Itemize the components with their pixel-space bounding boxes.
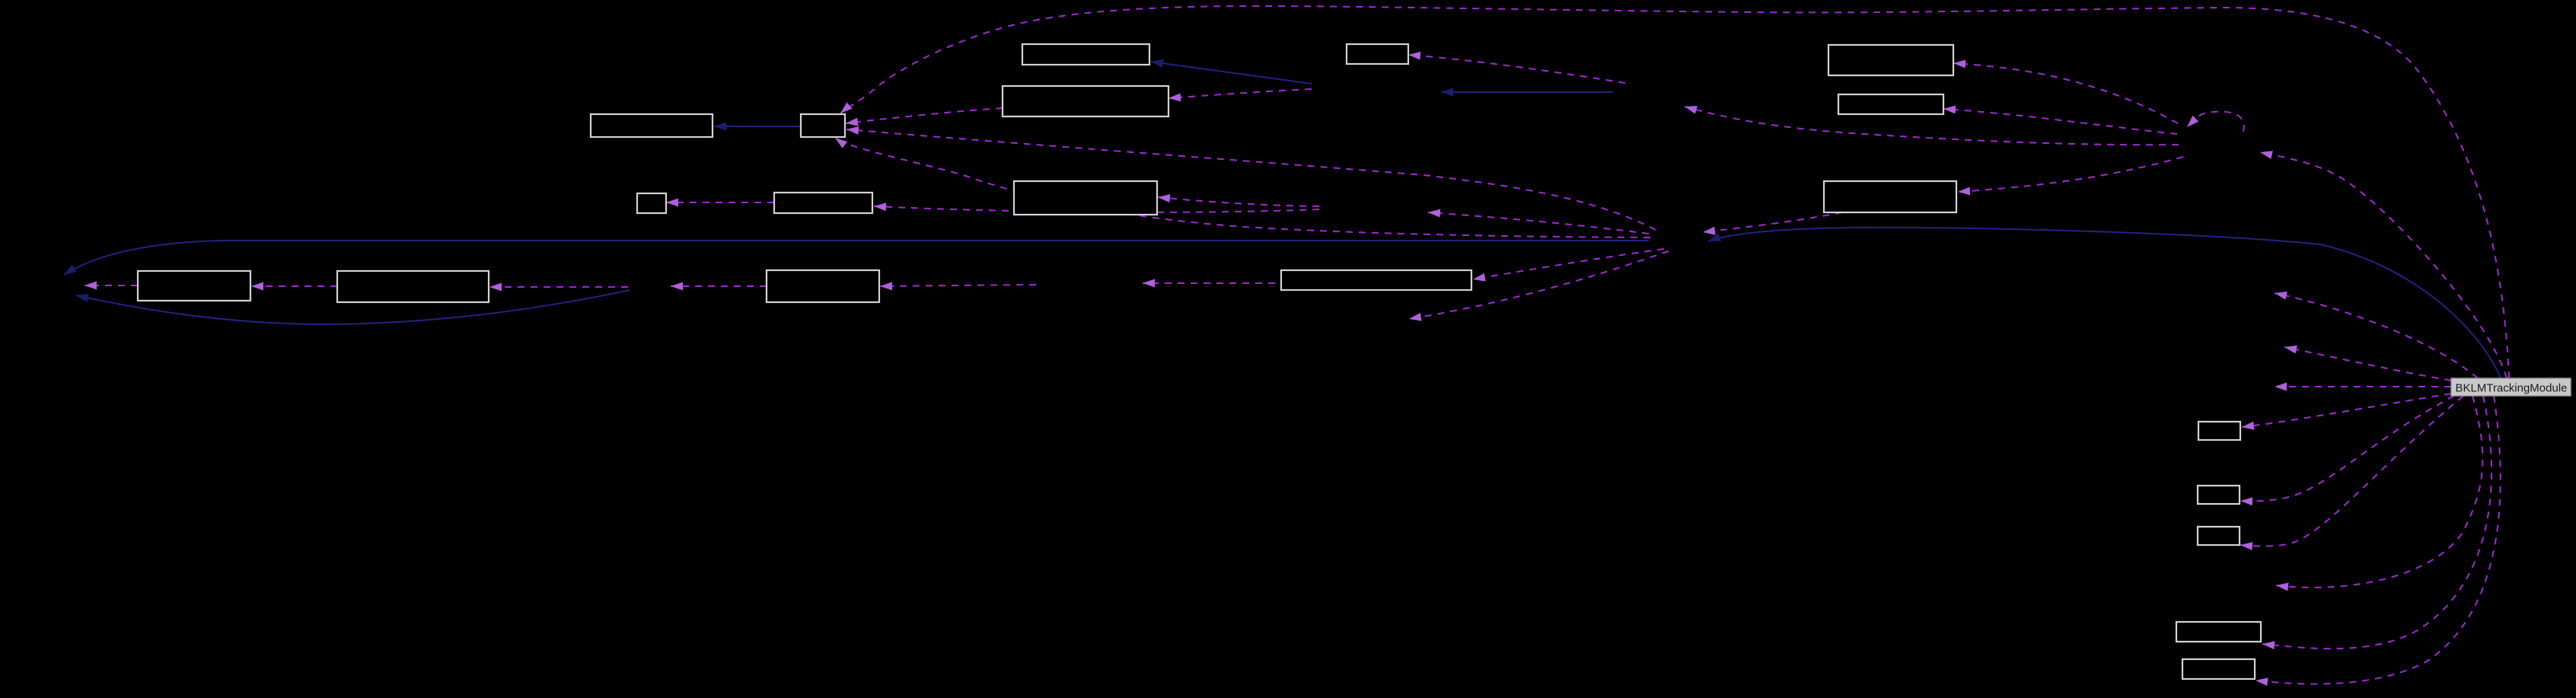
edge hub1 to F bottom [835,138,1650,237]
edge L corner to hub1 [1703,212,1842,232]
edge BKLM to sink b [2284,347,2451,381]
edge hubU to D [1168,89,1312,98]
edge BKLM to hub1 blue [1708,228,2501,378]
edge BKLM to R3 [2240,396,2463,547]
edge F to E blue [714,126,801,127]
edge Z0 to far left bottom blue [76,290,630,324]
edge hub2 to K [1953,63,2178,123]
edge O to hidden Z0 [671,285,767,287]
edge hub1 to far left blue [64,241,1649,275]
edge hub2 self loop [2187,112,2244,132]
edge hubU to A blue [1151,62,1312,84]
edge BKLM to R4 [2262,396,2492,649]
edge hidden Z3 to J [874,206,1319,212]
edge J to I [666,202,774,203]
edge BKLM top route to F [840,6,2509,378]
svg-text:BKLMTrackingModule: BKLMTrackingModule [2455,382,2567,395]
node box B [1347,44,1408,64]
node box O [767,270,879,302]
edge hubT to hubU blue [1441,91,1613,93]
node box L [1824,181,1956,212]
edge hub2 to K2 [1943,109,2177,134]
node box R3 [2198,527,2240,545]
node box I [637,193,666,213]
node box J [774,193,872,213]
edge BKLM to R2 [2240,396,2454,501]
edge hub1 to F lower [846,129,1656,230]
edge BKLM to R5 [2256,396,2501,684]
node BKLMTrackingModule [2451,378,2571,396]
edge hub1 to hidden Z3 [1428,212,1649,234]
edge hub1 to P [1473,249,1664,279]
node box K [1828,45,1953,75]
node box R4 [2176,622,2261,642]
node box N [337,271,489,302]
edge BKLM to sink a [2275,293,2478,378]
node box R2 [2198,486,2240,504]
edge hub2 to L [1958,157,2183,192]
edge N to M [251,285,337,287]
node box A [1022,44,1149,65]
node box F [801,114,845,137]
node box M [138,271,250,301]
edge D to F upper [846,108,1003,123]
node box K2 [1838,94,1943,114]
node box E [591,114,713,137]
edge BKLM to hub2 [2260,152,2507,378]
node box R1 [2198,422,2240,440]
edge hubT to B [1408,55,1625,83]
node box D [1003,86,1168,116]
edge hub1 to hidden Z2 [1409,251,1669,319]
edge hidden Z3 to H [1158,197,1319,206]
edge hidden Z0 to N [489,286,628,288]
edge BKLM to R1 [2242,394,2451,427]
edge M to left sink [84,285,138,286]
edge P to hidden Z1 [1143,282,1275,284]
edge BKLM to sink c [2275,386,2451,387]
node box H [1014,181,1157,215]
edge BKLM to sink d [2276,396,2482,588]
edge hub2 to hubT [1685,107,2179,145]
node box P [1281,270,1471,290]
edge hidden Z1 to O [880,285,1036,286]
node box R5 [2182,659,2255,679]
